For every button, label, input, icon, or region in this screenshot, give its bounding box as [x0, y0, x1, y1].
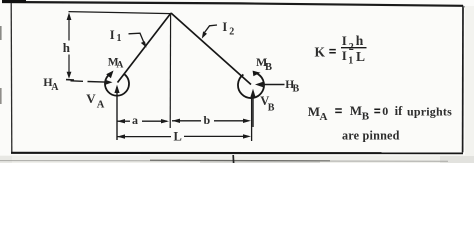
svg-text:I: I [342, 48, 347, 63]
svg-text:B: B [268, 102, 275, 113]
svg-text:b: b [204, 113, 211, 127]
svg-text:A: A [117, 61, 124, 71]
svg-text:0: 0 [382, 104, 388, 118]
svg-text:I: I [342, 33, 347, 48]
svg-text:I: I [222, 20, 227, 34]
svg-text:A: A [320, 111, 328, 123]
svg-text:if: if [395, 104, 403, 118]
svg-text:V: V [86, 91, 96, 106]
svg-text:a: a [132, 113, 138, 127]
svg-text:h: h [63, 40, 71, 55]
svg-text:uprights: uprights [407, 104, 452, 118]
svg-text:1: 1 [117, 33, 122, 44]
svg-text:M: M [308, 104, 320, 119]
svg-text:2: 2 [229, 27, 234, 38]
svg-text:A: A [97, 100, 105, 111]
svg-text:h: h [356, 33, 364, 48]
svg-text:A: A [51, 82, 59, 93]
svg-text:L: L [356, 49, 365, 64]
svg-text:B: B [265, 62, 272, 73]
svg-text:L: L [174, 130, 182, 144]
svg-text:B: B [362, 111, 370, 123]
svg-text:K: K [315, 44, 326, 59]
svg-text:I: I [110, 28, 115, 42]
svg-text:B: B [293, 83, 300, 94]
svg-text:1: 1 [348, 56, 353, 67]
svg-text:are pinned: are pinned [342, 129, 400, 143]
svg-text:M: M [350, 103, 362, 118]
